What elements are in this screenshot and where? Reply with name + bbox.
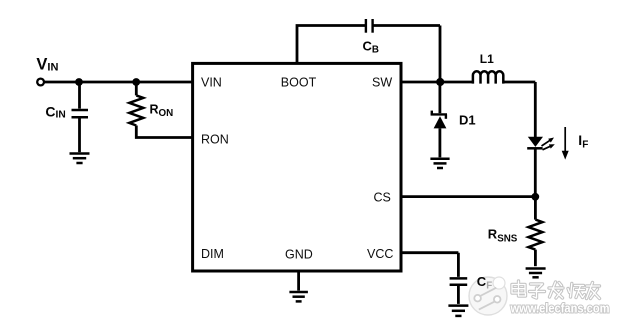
svg-text:RON: RON xyxy=(201,133,229,147)
svg-text:SW: SW xyxy=(372,75,392,89)
ground CF xyxy=(448,306,468,316)
svg-text:BOOT: BOOT xyxy=(281,75,317,89)
svg-text:L1: L1 xyxy=(480,52,494,66)
resistor RSNS xyxy=(528,220,542,250)
pin labels of U1 xyxy=(201,75,393,261)
wire LED cathode to CS node xyxy=(534,150,537,198)
wire CS sense xyxy=(401,195,535,198)
svg-text:DIM: DIM xyxy=(201,247,224,261)
wire CIN lower lead xyxy=(78,119,81,153)
wire BOOT loop xyxy=(297,26,440,83)
ground D1 xyxy=(430,159,449,168)
wire RON to pin RON xyxy=(136,126,192,138)
svg-text:www.elecfans.com: www.elecfans.com xyxy=(510,301,610,316)
svg-text:CIN: CIN xyxy=(45,103,65,120)
capacitor CF xyxy=(450,278,468,284)
svg-text:VIN: VIN xyxy=(36,55,58,73)
inductor L1 xyxy=(473,71,503,83)
wire SW node to D1 xyxy=(438,82,441,113)
diode D1 body xyxy=(434,116,447,128)
svg-text:VCC: VCC xyxy=(367,247,393,261)
wire CF lower lead xyxy=(457,286,460,304)
svg-text:CB: CB xyxy=(363,38,379,55)
node junction CS-RSNS xyxy=(531,193,539,201)
LED D2 light arrow 1 xyxy=(542,138,555,147)
op-amp U1 regulator IC body xyxy=(193,63,401,271)
wire D1 anode to ground xyxy=(438,128,441,157)
node junction SW xyxy=(436,78,444,86)
wire VCC to CF xyxy=(401,253,458,277)
wire L1 to LED xyxy=(503,82,535,137)
resistor RON xyxy=(129,95,143,125)
watermark logo elecfans xyxy=(469,277,507,315)
capacitor CB xyxy=(366,19,373,33)
svg-text:GND: GND xyxy=(285,247,313,261)
ground GND pin xyxy=(289,292,308,301)
ground CIN xyxy=(70,154,90,164)
wire RON upper lead xyxy=(135,82,138,95)
svg-text:RSNS: RSNS xyxy=(488,226,518,244)
wire CIN upper lead xyxy=(78,82,81,109)
wire GND pin stub xyxy=(297,271,300,291)
LED D2 light arrow 2 xyxy=(543,144,555,150)
arrow IF current xyxy=(562,127,569,160)
wire RSNS lower lead xyxy=(534,250,537,267)
svg-text:RON: RON xyxy=(150,102,174,119)
ground RSNS xyxy=(526,269,546,278)
wire RSNS upper lead xyxy=(534,197,537,220)
LED D2 body xyxy=(528,137,543,147)
wire SW output xyxy=(401,81,473,84)
node junction RON tap xyxy=(132,78,140,86)
node VIN input terminal xyxy=(37,79,44,86)
diode D1 schottky cathode bar xyxy=(431,111,447,119)
svg-text:CS: CS xyxy=(374,191,391,205)
svg-text:D1: D1 xyxy=(459,112,476,127)
capacitor CIN xyxy=(72,110,89,117)
LED D2 cathode bar xyxy=(527,147,542,150)
component value labels xyxy=(36,38,588,291)
svg-text:VIN: VIN xyxy=(201,75,222,89)
svg-text:IF: IF xyxy=(578,132,588,150)
node junction CIN tap xyxy=(75,78,83,86)
wire VIN input rail xyxy=(44,81,192,84)
